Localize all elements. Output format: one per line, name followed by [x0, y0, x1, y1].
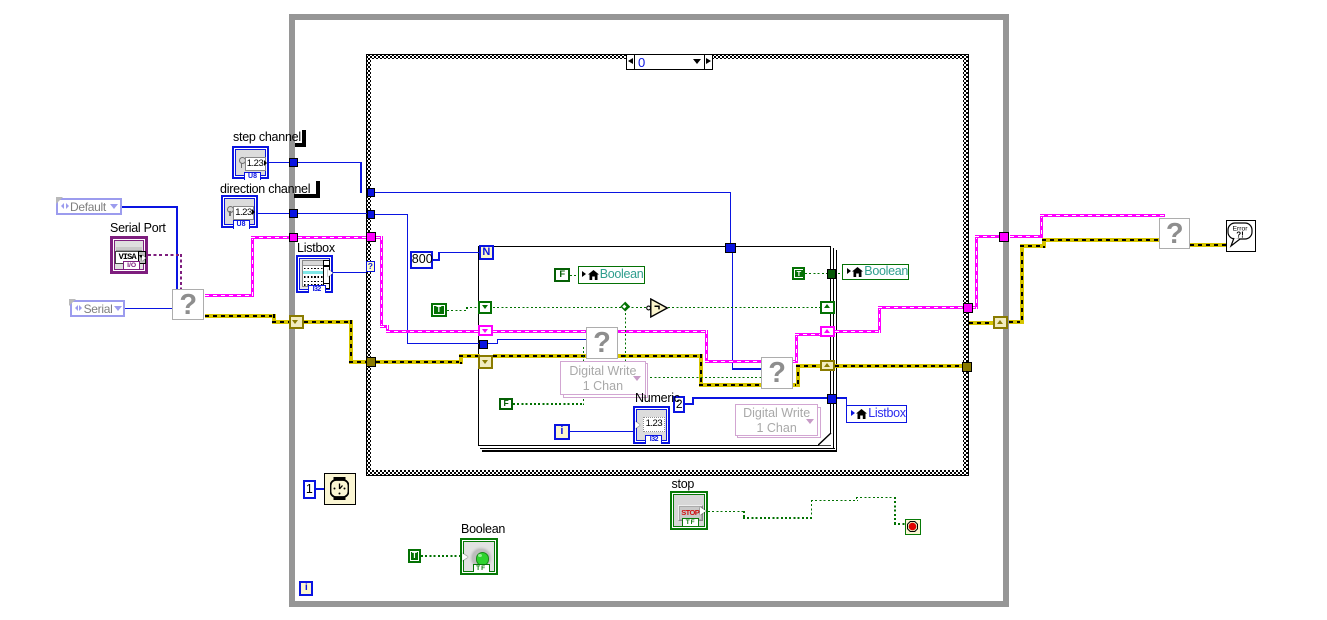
enum constant Serial — [70, 300, 126, 318]
T constant (bottom, to LED) — [408, 549, 421, 562]
wire: pink while tunnel to right ? VI — [1010, 235, 1043, 238]
tunnel olive left (arrow box) — [289, 315, 304, 329]
wire: Digital Write 1 out to ? VI 2 — [646, 377, 761, 379]
F constant 1 — [554, 268, 570, 282]
tunnel blue top (for) — [725, 243, 736, 253]
wire: direction inside case down to for loop blue tunnel — [375, 214, 409, 216]
label stop — [672, 478, 695, 491]
wire: inside loop vertical to ? VI 2 — [732, 252, 734, 369]
label Boolean — [461, 523, 505, 536]
tunnel olive right (for) — [820, 360, 835, 371]
tunnel pink left (for) — [478, 325, 493, 336]
numeric constant 800 — [410, 251, 433, 269]
VISA resource constant Serial Port — [110, 236, 149, 274]
question mark VI 1 (in for loop) — [586, 327, 619, 358]
tunnel blue step (case) — [367, 188, 376, 197]
numeric control step channel — [232, 146, 269, 179]
wire: while tunnel to case tunnel pink — [298, 236, 367, 239]
wire: F const 1 to Boolean local 1 — [570, 275, 578, 277]
tunnel blue direction (case) — [367, 210, 376, 219]
wire: step channel control to while tunnel — [269, 162, 290, 164]
Listbox control — [296, 255, 333, 293]
tunnel dark green square (for right) — [827, 269, 837, 279]
for loop stacked shadow lines — [833, 248, 834, 448]
tunnel blue left square (for) — [479, 340, 488, 349]
wire: junction drop to Digital Write 1 — [625, 309, 627, 361]
Numeric indicator — [633, 406, 670, 445]
enum constant Default — [56, 198, 122, 216]
T constant (case, to green tunnel) — [431, 303, 447, 318]
numeric constant 2 — [673, 396, 685, 413]
bracket step channel — [302, 130, 306, 147]
tunnel olive (case right) — [962, 362, 972, 372]
wait ms timer — [324, 473, 356, 505]
wire: left ? VI pink out to while tunnel — [205, 294, 254, 297]
local variable Boolean 2 — [842, 264, 908, 281]
NOT gate — [645, 298, 670, 319]
label Numeric — [635, 392, 680, 405]
local variable Listbox — [846, 405, 906, 423]
tunnel blue step — [289, 158, 298, 167]
Digital Write 1 Chan express box 2 — [737, 407, 821, 439]
local variable Boolean 1 — [578, 266, 645, 284]
wire: stop to conditional terminal — [708, 511, 745, 513]
question mark VI left — [172, 289, 205, 321]
wire: NOT out to right green tunnel — [668, 307, 821, 309]
wire: step channel tunnel to case tunnel — [297, 162, 361, 164]
wire: 2 to for loop right tunnel — [685, 403, 693, 405]
tunnel pink right (while) — [999, 232, 1009, 242]
for loop border — [478, 246, 832, 446]
tunnel pink (case right) — [963, 303, 973, 313]
tunnel pink (case left) — [366, 232, 376, 242]
bracket direction channel — [316, 181, 321, 198]
Boolean LED indicator — [460, 538, 498, 575]
stop button — [670, 491, 708, 530]
wire: step channel inside case to for loop top tunnel — [375, 192, 731, 194]
while loop border — [289, 14, 1009, 607]
wire: right tunnel to Listbox local — [835, 397, 847, 399]
tunnel blue right square (for) — [827, 394, 837, 404]
tunnel olive right (while, arrow box) — [993, 316, 1008, 329]
wire: olive while tunnel to right ? VI — [1009, 320, 1024, 324]
wire: while olive tunnel to case tunnel — [304, 320, 353, 324]
label Serial Port — [110, 222, 166, 235]
label Listbox — [297, 242, 335, 255]
case selector label — [626, 54, 713, 71]
junction dot on green wire — [620, 302, 629, 311]
question mark VI 2 (in for loop) — [761, 357, 793, 389]
wire: i to Numeric indicator — [570, 431, 634, 433]
tunnel blue direction — [289, 209, 298, 218]
wire: direction channel control to while tunnel — [258, 213, 290, 215]
tunnel olive (case bottom left) — [366, 357, 376, 367]
wire: pink inside for loop — [493, 330, 708, 333]
tunnel green left — [478, 301, 492, 314]
wire: olive for loop to case square tunnel — [835, 364, 963, 368]
wire: T to Boolean LED — [421, 555, 462, 557]
wire: Default enum to left ? VI — [121, 206, 177, 208]
wire: olive inside case to for loop — [376, 360, 463, 364]
label direction channel — [220, 183, 310, 196]
F constant 2 — [499, 398, 512, 410]
error handler icon — [1226, 220, 1257, 252]
wire: Listbox control to case ? tunnel — [333, 272, 366, 274]
wire: left ? VI error out to while tunnel — [205, 314, 276, 318]
label step channel — [233, 131, 301, 144]
T constant (for loop right) — [792, 267, 805, 280]
tunnel pink left — [289, 233, 299, 243]
wire: F const 2 up to Digital Write 1 — [513, 403, 584, 405]
wire: olive inside for loop — [493, 354, 702, 358]
wire: VISA to left ? VI (purple dashed) — [148, 254, 182, 256]
wire: pink inside case down to for loop — [376, 236, 382, 239]
tunnel olive left (for) — [478, 355, 493, 369]
wire: pink for loop to case tunnel — [835, 330, 880, 333]
for loop corner fold — [818, 433, 832, 446]
wire: olive case to while tunnel stub — [969, 321, 994, 325]
wire: right ? VI to error handler — [1190, 243, 1226, 247]
wire: Serial enum to left ? VI — [125, 308, 173, 310]
tunnel ? listbox (case left) — [366, 261, 375, 272]
i iteration terminal (while loop) — [299, 581, 313, 596]
svg-text:?!: ?! — [1236, 230, 1244, 239]
N count terminal — [479, 245, 494, 260]
Digital Write 1 Chan express box 1 — [563, 363, 649, 398]
wire: direction tunnel to case tunnel — [297, 213, 367, 215]
wire: pink case to while tunnel — [972, 306, 978, 309]
wire: green tunnel to NOT gate and junction — [493, 307, 649, 309]
wire: inside loop from blue tunnel to ? VI 1 — [488, 343, 498, 345]
numeric constant 1 — [303, 480, 316, 499]
numeric control direction channel — [221, 195, 258, 228]
while loop conditional terminal — [905, 519, 922, 536]
wire: 800 to N — [433, 259, 440, 261]
case structure hatched border — [366, 54, 969, 476]
tunnel pink right (for) — [820, 326, 836, 337]
i iteration terminal (for loop) — [554, 424, 570, 439]
wire: 1 to wait ms — [316, 488, 324, 490]
tunnel green right (for) — [820, 301, 835, 314]
wire: T to dark green tunnel to Boolean local — [805, 273, 827, 275]
wire: T constant to for loop green tunnel — [447, 310, 468, 312]
question mark VI right — [1159, 218, 1190, 249]
